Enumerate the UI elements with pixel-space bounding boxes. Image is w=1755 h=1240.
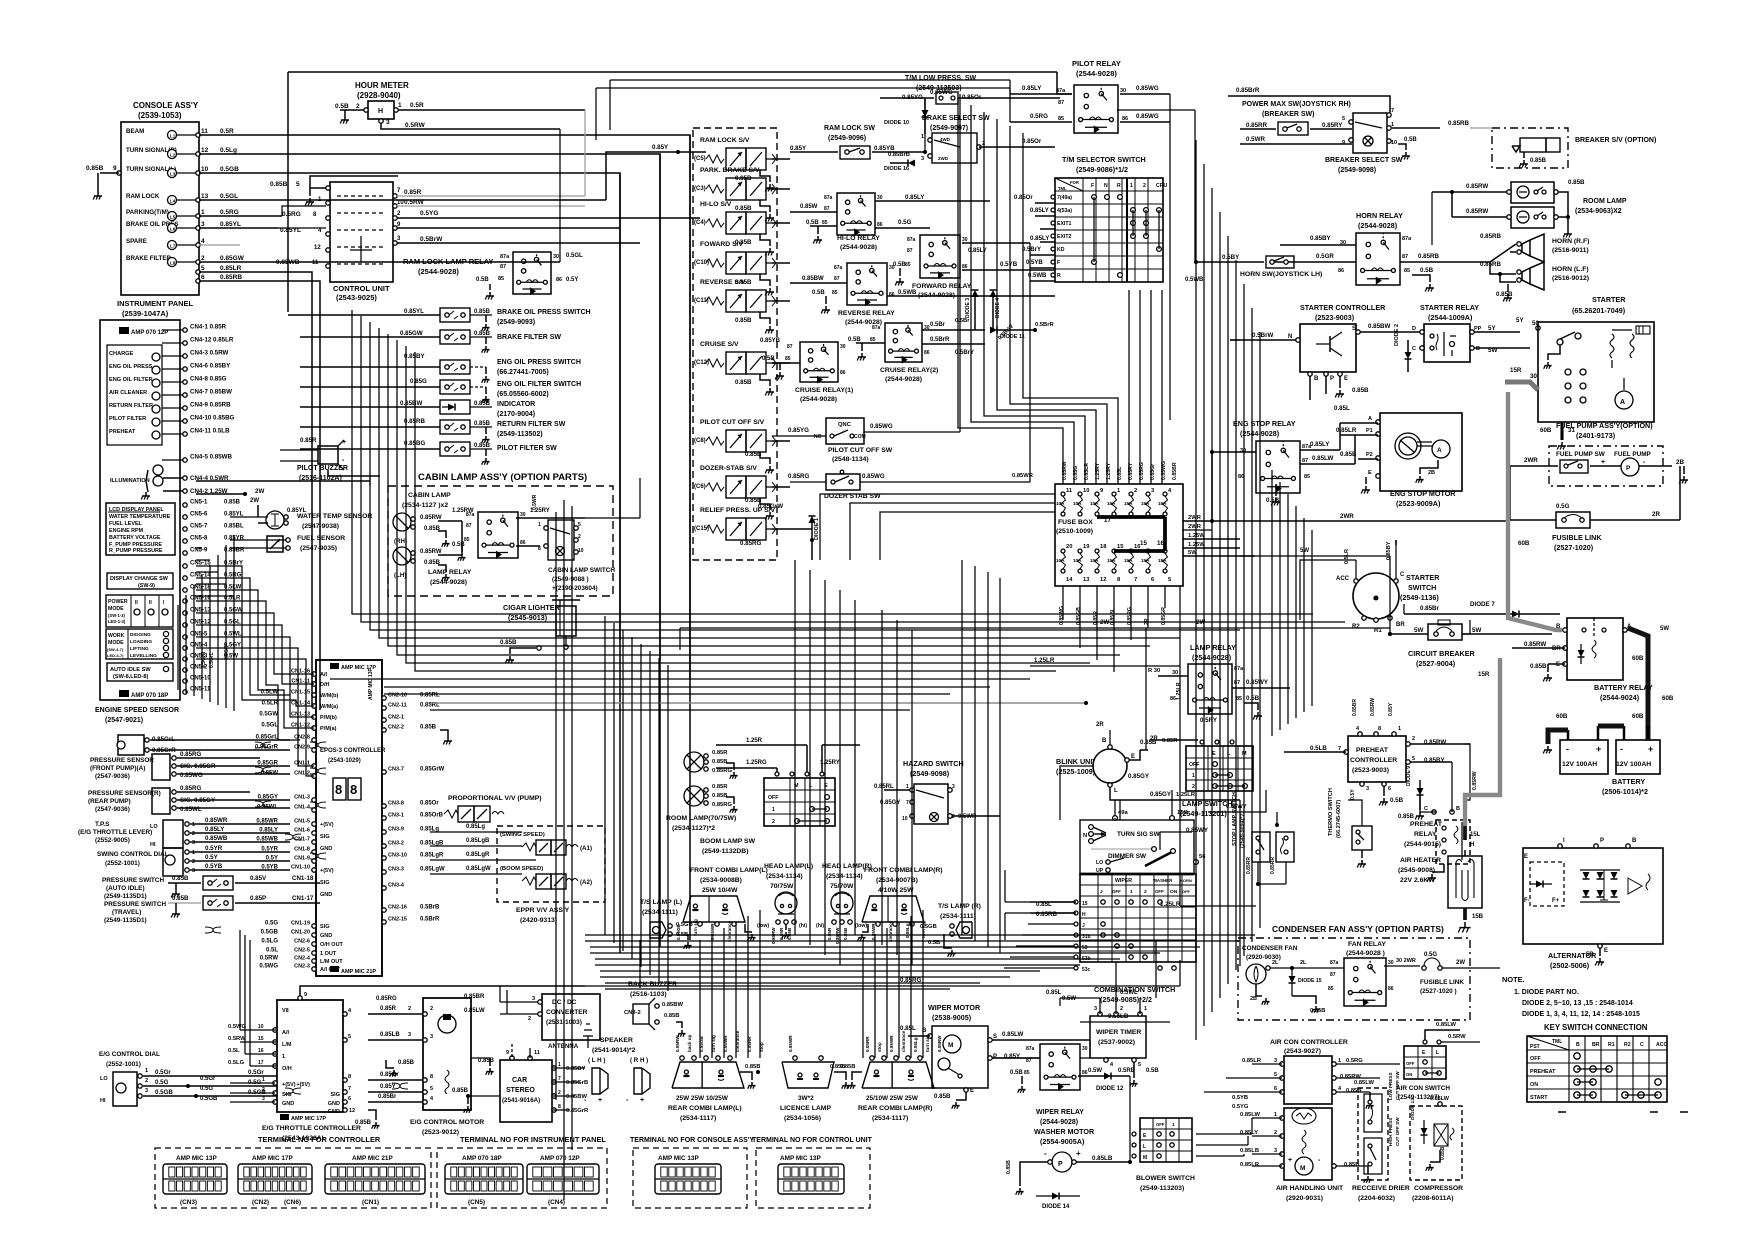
work mode switch block [106, 629, 173, 659]
svg-text:LOADING: LOADING [130, 639, 152, 645]
svg-text:0.85WR: 0.85WR [205, 817, 228, 824]
fuel sensor (2547-9035) [230, 535, 345, 552]
svg-text:85: 85 [1328, 986, 1334, 992]
svg-text:AIR HEATER: AIR HEATER [1400, 857, 1441, 864]
svg-text:BACK BUZZER: BACK BUZZER [628, 981, 677, 988]
svg-text:(2544-9028): (2544-9028) [1040, 1119, 1078, 1126]
svg-text:(2527-1020): (2527-1020) [1554, 543, 1594, 552]
turn signal switch contacts [1083, 818, 1161, 843]
svg-text:10A: 10A [1073, 558, 1082, 563]
svg-text:FOWARD S/V: FOWARD S/V [700, 241, 744, 248]
svg-text:P2: P2 [1366, 452, 1373, 458]
svg-text:(2544-9028): (2544-9028) [1076, 69, 1117, 78]
return filter switch (2549-113502) [300, 418, 566, 443]
svg-text:0.5Gr: 0.5Gr [200, 1076, 216, 1082]
svg-text:0.85LY: 0.85LY [1022, 85, 1042, 92]
svg-text:A/I: A/I [282, 1030, 290, 1036]
svg-text:+: + [640, 1097, 644, 1104]
svg-text:0.5GB: 0.5GB [155, 1089, 173, 1096]
svg-text:CN3-2: CN3-2 [388, 841, 404, 847]
svg-text:0.85LR: 0.85LR [1336, 427, 1357, 434]
svg-text:MODE: MODE [108, 606, 124, 612]
svg-text:0.85RW: 0.85RW [675, 1035, 680, 1052]
svg-text:CONDENSER FAN ASS'Y (OPTION PA: CONDENSER FAN ASS'Y (OPTION PARTS) [1272, 924, 1444, 934]
svg-text:R: R [1057, 273, 1061, 279]
svg-text:H: H [1470, 842, 1474, 848]
svg-text:DIMMER SW: DIMMER SW [1108, 853, 1147, 860]
svg-text:(CN1): (CN1) [362, 1199, 379, 1206]
svg-text:86: 86 [1122, 116, 1128, 122]
svg-text:CN4-8 0.85G: CN4-8 0.85G [190, 376, 227, 383]
svg-text:0.5RG: 0.5RG [282, 211, 301, 218]
svg-text:0.85GW: 0.85GW [400, 330, 423, 337]
svg-text:HORN: HORN [1180, 878, 1192, 883]
wire 5W to circuit breaker [1240, 548, 1669, 634]
svg-text:85: 85 [1058, 116, 1064, 122]
svg-text:0.85LgW: 0.85LgW [466, 866, 491, 872]
wires control unit to right [397, 196, 700, 243]
svg-text:15A: 15A [1158, 558, 1167, 563]
svg-text:10A: 10A [1090, 558, 1099, 563]
relief press up solenoid valve (C15) [694, 507, 812, 540]
svg-text:(2549-9093): (2549-9093) [497, 319, 535, 326]
svg-text:0.85Lg: 0.85Lg [466, 824, 485, 830]
svg-text:0.85BW: 0.85BW [662, 1002, 683, 1008]
svg-text:CRU: CRU [1156, 183, 1167, 189]
front combi lamp L (2534-9008B) [676, 867, 768, 942]
svg-text:15A: 15A [1124, 558, 1133, 563]
svg-text:0.5Br: 0.5Br [930, 322, 946, 328]
svg-text:7: 7 [906, 800, 909, 806]
svg-text:0.85RR: 0.85RR [1270, 857, 1276, 874]
svg-text:0.85G: 0.85G [410, 378, 427, 385]
svg-text:(C6): (C6) [694, 484, 706, 490]
wires cabin lamp to main [370, 478, 640, 518]
svg-text:(2544-9028 ): (2544-9028 ) [1346, 950, 1385, 957]
svg-text:87a: 87a [872, 325, 881, 331]
svg-text:30: 30 [889, 265, 895, 271]
svg-text:SIG: SIG [320, 834, 329, 840]
svg-text:53c: 53c [1082, 967, 1091, 973]
svg-text:1: 1 [538, 522, 541, 528]
svg-text:( R H ): ( R H ) [630, 1057, 648, 1064]
svg-text:0.5BrR: 0.5BrR [930, 337, 950, 343]
svg-text:0.85RW: 0.85RW [420, 549, 442, 555]
console assembly box (2539-1053) [121, 101, 199, 295]
svg-text:0.85RW: 0.85RW [1472, 771, 1478, 790]
svg-text:0.85WG: 0.85WG [1136, 113, 1159, 120]
svg-text:0.85WY: 0.85WY [1246, 679, 1269, 686]
svg-text:(C12): (C12) [694, 360, 709, 366]
svg-text:0.85B: 0.85B [172, 895, 189, 902]
svg-text:CN1-3: CN1-3 [294, 795, 310, 801]
svg-text:19: 19 [1083, 544, 1090, 550]
svg-text:3: 3 [952, 784, 955, 790]
svg-text:0.85B: 0.85B [664, 1013, 679, 1019]
svg-text:E: E [1344, 376, 1348, 382]
svg-text:COMPRESSOR: COMPRESSOR [1414, 1185, 1463, 1192]
svg-text:(2543-9025): (2543-9025) [336, 293, 377, 302]
rear combi lamp R (2534-1117) [830, 1030, 954, 1122]
amp 070 18p tag [119, 690, 168, 699]
svg-text:B: B [1476, 346, 1480, 352]
svg-text:CABIN LAMP ASS'Y (OPTION PARTS: CABIN LAMP ASS'Y (OPTION PARTS) [418, 472, 587, 483]
thick gray cable 15R continues to air heater [1465, 658, 1500, 826]
antenna [548, 1024, 593, 1050]
svg-text:1.25W: 1.25W [1188, 533, 1205, 539]
svg-text:(2549-9088 ): (2549-9088 ) [552, 576, 589, 583]
wire 0.85WY from lamp switch to right [1208, 790, 1279, 827]
svg-text:4(53a): 4(53a) [1057, 208, 1072, 214]
svg-text:AMP 070 12P: AMP 070 12P [131, 330, 168, 336]
turn sig bus wires [1120, 800, 1192, 850]
svg-text:85: 85 [822, 220, 828, 226]
svg-text:60B: 60B [1662, 695, 1674, 702]
svg-text:(C10): (C10) [694, 260, 709, 266]
svg-text:DIODE 4: DIODE 4 [995, 298, 1001, 318]
svg-text:87: 87 [824, 206, 830, 212]
svg-text:2W: 2W [1100, 619, 1109, 626]
svg-text:(2534-1127)*2: (2534-1127)*2 [672, 825, 715, 832]
svg-text:0.5Gr: 0.5Gr [155, 1069, 171, 1076]
svg-text:12: 12 [1100, 577, 1106, 583]
svg-text:(BOOM SPEED): (BOOM SPEED) [500, 866, 543, 872]
svg-text:(65.26201-7049): (65.26201-7049) [1572, 306, 1626, 315]
svg-text:(E/G THROTTLE LEVER): (E/G THROTTLE LEVER) [78, 829, 152, 836]
proportional valve pump [444, 795, 542, 822]
svg-text:85: 85 [1236, 696, 1242, 702]
svg-text:0.85Br: 0.85Br [1420, 605, 1440, 612]
svg-text:(65.05560-6002): (65.05560-6002) [497, 391, 549, 398]
svg-text:BREAKER S/V (OPTION): BREAKER S/V (OPTION) [1575, 137, 1656, 144]
svg-text:3: 3 [145, 1088, 148, 1094]
svg-text:0.85RW: 0.85RW [420, 515, 442, 521]
svg-text:11: 11 [1066, 488, 1073, 494]
svg-text:STARTER: STARTER [1406, 573, 1440, 582]
svg-text:85: 85 [1304, 474, 1310, 480]
svg-text:0.85LR: 0.85LR [220, 265, 242, 272]
svg-text:1: 1 [398, 102, 402, 109]
svg-text:+: + [1601, 459, 1605, 466]
svg-text:PRESSURE SWITCH: PRESSURE SWITCH [102, 877, 165, 884]
svg-text:DIODE 13: DIODE 13 [1410, 1098, 1416, 1120]
svg-text:2: 2 [145, 1078, 148, 1084]
svg-text:+(5V): +(5V) [320, 822, 334, 828]
svg-text:10: 10 [902, 816, 908, 822]
svg-text:(SW-8,LED-8): (SW-8,LED-8) [113, 674, 148, 680]
svg-text:WATER TEMPERATURE: WATER TEMPERATURE [109, 514, 171, 520]
svg-text:0.85Lg: 0.85Lg [905, 923, 910, 938]
svg-text:0.5GR: 0.5GR [1316, 253, 1334, 260]
svg-text:OFF: OFF [1189, 762, 1199, 768]
svg-text:(CN5): (CN5) [468, 1199, 485, 1206]
wiper timer (2537-9002) [1062, 990, 1159, 1087]
svg-text:POWER MAX SW(JOYSTICK RH): POWER MAX SW(JOYSTICK RH) [1242, 101, 1351, 108]
svg-text:85: 85 [785, 356, 791, 362]
svg-text:COM: COM [854, 434, 866, 440]
svg-text:STARTER RELAY: STARTER RELAY [1420, 303, 1479, 312]
svg-text:FUEL PUMP: FUEL PUMP [1614, 451, 1652, 458]
svg-text:0.5L: 0.5L [266, 948, 278, 954]
svg-text:(C15): (C15) [694, 526, 709, 532]
svg-text:CN3-4: CN3-4 [388, 883, 405, 889]
svg-text:0.85RB: 0.85RB [220, 274, 242, 281]
svg-text:L: L [1143, 1144, 1146, 1150]
svg-text:0.85RB: 0.85RB [1036, 911, 1058, 918]
svg-text:B: B [1632, 838, 1637, 844]
svg-text:HORN SW(JOYSTICK LH): HORN SW(JOYSTICK LH) [1240, 271, 1322, 278]
svg-text:CN5-6: CN5-6 [190, 512, 208, 518]
svg-text:1.25R: 1.25R [746, 738, 763, 744]
svg-text:ON: ON [1170, 889, 1178, 895]
svg-text:3: 3 [408, 1032, 411, 1038]
svg-text:(2549-9094)*2: (2549-9094)*2 [1240, 814, 1246, 848]
wires from combination switch left pins [1040, 901, 1074, 903]
svg-text:0.85B: 0.85B [934, 1093, 951, 1100]
svg-text:3: 3 [1366, 786, 1369, 792]
svg-text:87a: 87a [834, 265, 843, 271]
svg-text:(2534-1117): (2534-1117) [680, 1115, 716, 1122]
svg-text:CN4-1 0.85R: CN4-1 0.85R [190, 324, 227, 331]
svg-text:15B: 15B [1472, 914, 1484, 920]
svg-text:(BREAKER SW): (BREAKER SW) [1262, 111, 1315, 118]
svg-text:0.5GL: 0.5GL [566, 253, 583, 259]
svg-text:CONVERTER: CONVERTER [546, 1009, 588, 1016]
svg-text:(2548-1134): (2548-1134) [832, 456, 869, 463]
svg-text:16: 16 [258, 1048, 264, 1054]
svg-text:CN2-3: CN2-3 [294, 964, 310, 970]
svg-text:2: 2 [1412, 736, 1415, 742]
svg-text:E/G THROTTLE CONTROLLER: E/G THROTTLE CONTROLLER [262, 1125, 361, 1132]
horn switch joystick LH [1194, 254, 1322, 278]
svg-text:AIR HANDLING UNIT: AIR HANDLING UNIT [1276, 1185, 1344, 1192]
svg-text:9: 9 [304, 992, 307, 998]
svg-text:(RH): (RH) [394, 538, 407, 545]
svg-text:NO: NO [814, 434, 822, 440]
dozer-stab solenoid valve (C6) [694, 465, 790, 520]
svg-text:0.5L: 0.5L [228, 1048, 240, 1054]
svg-text:CN1-19: CN1-19 [291, 921, 310, 927]
svg-text:0.85GY: 0.85GY [1128, 773, 1150, 780]
pilot cut off switch QNC (2548-1134) [772, 418, 960, 463]
EPOS-3 controller (2543-1029) [316, 660, 386, 976]
svg-text:0.85RB: 0.85RB [1480, 233, 1502, 240]
svg-text:2B: 2B [1428, 470, 1435, 476]
control unit pins [276, 188, 443, 268]
svg-text:5: 5 [296, 181, 300, 188]
svg-text:PILOT FILTER SW: PILOT FILTER SW [497, 445, 557, 452]
svg-text:0.5Gr: 0.5Gr [248, 1069, 264, 1076]
diode 15 condenser [1289, 968, 1326, 1014]
breaker select switch (2549-9098) [1325, 108, 1492, 174]
svg-text:0.5GrL: 0.5GrL [209, 652, 215, 668]
svg-text:(2510-1009): (2510-1009) [1056, 528, 1093, 535]
svg-text:AIR CLEANER: AIR CLEANER [109, 390, 147, 396]
svg-text:CN5-1: CN5-1 [190, 500, 208, 506]
svg-text:(2544-9028): (2544-9028) [418, 267, 459, 276]
svg-text:15A: 15A [1107, 558, 1116, 563]
svg-text:3W*2: 3W*2 [798, 1095, 814, 1102]
amp 070 12p tag [119, 327, 168, 336]
svg-text:0.85R: 0.85R [712, 750, 728, 756]
svg-text:INDICATOR: INDICATOR [497, 401, 535, 408]
svg-text:0.85GY: 0.85GY [1150, 791, 1172, 798]
svg-text:D: D [1412, 326, 1416, 332]
svg-text:RECCEIVE DRIER: RECCEIVE DRIER [1352, 1185, 1410, 1192]
svg-text:S: S [993, 1034, 997, 1040]
verticals from fuse box bottom to lower bus [1062, 586, 1064, 620]
svg-text:N: N [1288, 334, 1292, 340]
svg-text:0.85BY: 0.85BY [1424, 757, 1446, 764]
svg-text:DIODE 3: DIODE 3 [965, 298, 971, 318]
svg-text:FUEL PUMP SW: FUEL PUMP SW [1556, 451, 1606, 458]
svg-text:LEVELLING: LEVELLING [130, 653, 157, 659]
center vertical bundle descending to lamps [604, 616, 606, 935]
svg-text:turn sig: turn sig [693, 919, 698, 936]
svg-text:ENG OIL FILTER SWITCH: ENG OIL FILTER SWITCH [497, 381, 581, 388]
svg-text:PRESSURE SENSOR: PRESSURE SENSOR [90, 757, 154, 764]
T/S lamp L (2534-1111) [640, 899, 693, 949]
svg-text:0.85WB: 0.85WB [256, 837, 278, 843]
svg-text:0.85RW: 0.85RW [1370, 698, 1376, 716]
svg-text:STOP LAMP SWITCH: STOP LAMP SWITCH [1232, 792, 1238, 846]
svg-text:10A: 10A [1056, 558, 1065, 563]
svg-text:ENGINE RPM: ENGINE RPM [109, 528, 144, 534]
solenoid valve PARK. BRAKE S/V (C3) [694, 167, 790, 222]
head lamp L (2534-1134) [757, 863, 813, 944]
svg-text:9: 9 [1342, 140, 1345, 146]
svg-text:P: P [993, 1054, 997, 1060]
dozer stab switch [788, 470, 1030, 500]
svg-text:0.5BrB: 0.5BrB [420, 905, 440, 911]
svg-text:2: 2 [262, 1087, 265, 1093]
svg-text:PP: PP [1474, 326, 1482, 332]
svg-text:(2544-9028): (2544-9028) [430, 579, 467, 586]
svg-text:0.85R: 0.85R [404, 189, 422, 196]
svg-text:0.85LgR: 0.85LgR [420, 853, 444, 859]
svg-text:2R: 2R [1096, 722, 1104, 728]
svg-text:85: 85 [905, 262, 911, 268]
svg-text:7(49a): 7(49a) [1057, 195, 1072, 201]
svg-text:(2208-6011A): (2208-6011A) [1412, 1195, 1454, 1202]
svg-text:15A: 15A [1158, 501, 1167, 506]
svg-text:2WD: 2WD [938, 156, 949, 161]
svg-text:0.85BR: 0.85BR [1352, 699, 1358, 716]
instrument panel box (2539-1047A) [100, 299, 194, 700]
svg-text:2: 2 [430, 1006, 433, 1012]
svg-text:0.5GR: 0.5GR [224, 645, 230, 660]
svg-text:0.85GY: 0.85GY [258, 795, 278, 801]
svg-text:OFF: OFF [1155, 889, 1164, 894]
front combi lamp R (2534-9007B) [858, 867, 943, 942]
svg-text:85: 85 [870, 337, 876, 343]
svg-text:(2544-9028): (2544-9028) [800, 396, 837, 403]
console to center long wires [199, 135, 690, 953]
svg-text:CN5-11: CN5-11 [190, 687, 211, 693]
svg-text:0.85YB: 0.85YB [874, 145, 895, 152]
svg-text:AUTO IDLE SW: AUTO IDLE SW [110, 667, 151, 673]
svg-text:0.5B: 0.5B [476, 277, 489, 283]
wire ram lock sv to sw [652, 144, 706, 154]
terminal block console assy [633, 1148, 747, 1208]
svg-text:BOOM LAMP SW: BOOM LAMP SW [700, 838, 756, 845]
svg-text:0.85LW: 0.85LW [1436, 1022, 1457, 1028]
svg-text:0.85RW: 0.85RW [1466, 183, 1488, 190]
svg-text:CONSOLE ASS'Y: CONSOLE ASS'Y [133, 101, 199, 110]
svg-text:87: 87 [466, 523, 472, 529]
console ground lead 0.85B [86, 165, 121, 200]
svg-text:2: 2 [201, 255, 205, 262]
svg-text:H: H [378, 108, 383, 115]
svg-text:R: R [1117, 183, 1121, 189]
svg-text:87: 87 [500, 264, 506, 270]
svg-text:0.85B: 0.85B [735, 205, 752, 212]
svg-text:(REAR PUMP): (REAR PUMP) [88, 798, 131, 805]
alternator (2502-5006) [1523, 838, 1663, 970]
svg-text:T.P.S: T.P.S [95, 821, 110, 828]
svg-text:4: 4 [201, 238, 205, 245]
svg-text:0.5BY: 0.5BY [1222, 254, 1240, 261]
svg-text:10A: 10A [1090, 501, 1099, 506]
svg-text:(2545-9008): (2545-9008) [1398, 867, 1435, 874]
svg-text:FUSIBLE LINK: FUSIBLE LINK [1420, 979, 1464, 986]
battery 2 12V 100AH [1602, 726, 1660, 796]
svg-text:C: C [1412, 346, 1416, 352]
svg-text:FUSIBLE LINK: FUSIBLE LINK [1552, 533, 1602, 542]
svg-text:CN1-20: CN1-20 [291, 930, 310, 936]
svg-text:0.5GB: 0.5GB [200, 1096, 218, 1102]
EPOS CN2-2 ground [440, 730, 452, 745]
svg-text:0.85RY: 0.85RY [1322, 122, 1343, 129]
svg-text:(SW-9): (SW-9) [138, 583, 155, 589]
svg-text:H: H [1082, 912, 1086, 918]
svg-text:RELAY: RELAY [1414, 831, 1437, 838]
svg-text:P1: P1 [1366, 428, 1373, 434]
svg-text:(2538-9005): (2538-9005) [932, 1013, 972, 1022]
diode 10 and diode 16 [884, 98, 929, 172]
svg-text:(2527-1020 ): (2527-1020 ) [1420, 988, 1457, 995]
svg-text:0.85Or: 0.85Or [1014, 195, 1033, 201]
svg-text:BR: BR [1552, 646, 1561, 652]
svg-text:5W: 5W [1414, 627, 1423, 634]
svg-text:(2549-9098): (2549-9098) [1338, 167, 1376, 174]
svg-text:WIPER TIMER: WIPER TIMER [1096, 1029, 1141, 1036]
auto idle switch [107, 663, 173, 681]
svg-text:+: + [1288, 1157, 1292, 1164]
svg-text:O/H OUT: O/H OUT [320, 942, 344, 948]
svg-text:2: 2 [1143, 183, 1146, 189]
svg-text:4WD: 4WD [940, 137, 951, 142]
svg-text:2: 2 [952, 814, 955, 820]
svg-text:L7: L7 [170, 244, 176, 249]
battery cables 60B [1543, 695, 1674, 754]
svg-text:0.85B: 0.85B [474, 331, 491, 337]
svg-text:M: M [1143, 1155, 1147, 1161]
svg-text:CN5-8: CN5-8 [190, 536, 208, 542]
svg-text:10: 10 [201, 166, 209, 173]
diode 11 on cruise wire [955, 318, 1055, 340]
svg-text:25W 10/4W: 25W 10/4W [702, 887, 738, 894]
wires from combination sw to left [1005, 870, 1030, 940]
svg-text:12: 12 [201, 147, 209, 154]
svg-text:CN5-10: CN5-10 [190, 676, 211, 682]
svg-text:+(5V): +(5V) [282, 1082, 296, 1088]
svg-text:QNC: QNC [838, 422, 852, 428]
svg-text:1: 1 [262, 1077, 265, 1083]
svg-text:85: 85 [1024, 1070, 1030, 1076]
svg-text:0.5RG: 0.5RG [1346, 1058, 1363, 1064]
svg-text:0.5Y: 0.5Y [566, 277, 578, 283]
